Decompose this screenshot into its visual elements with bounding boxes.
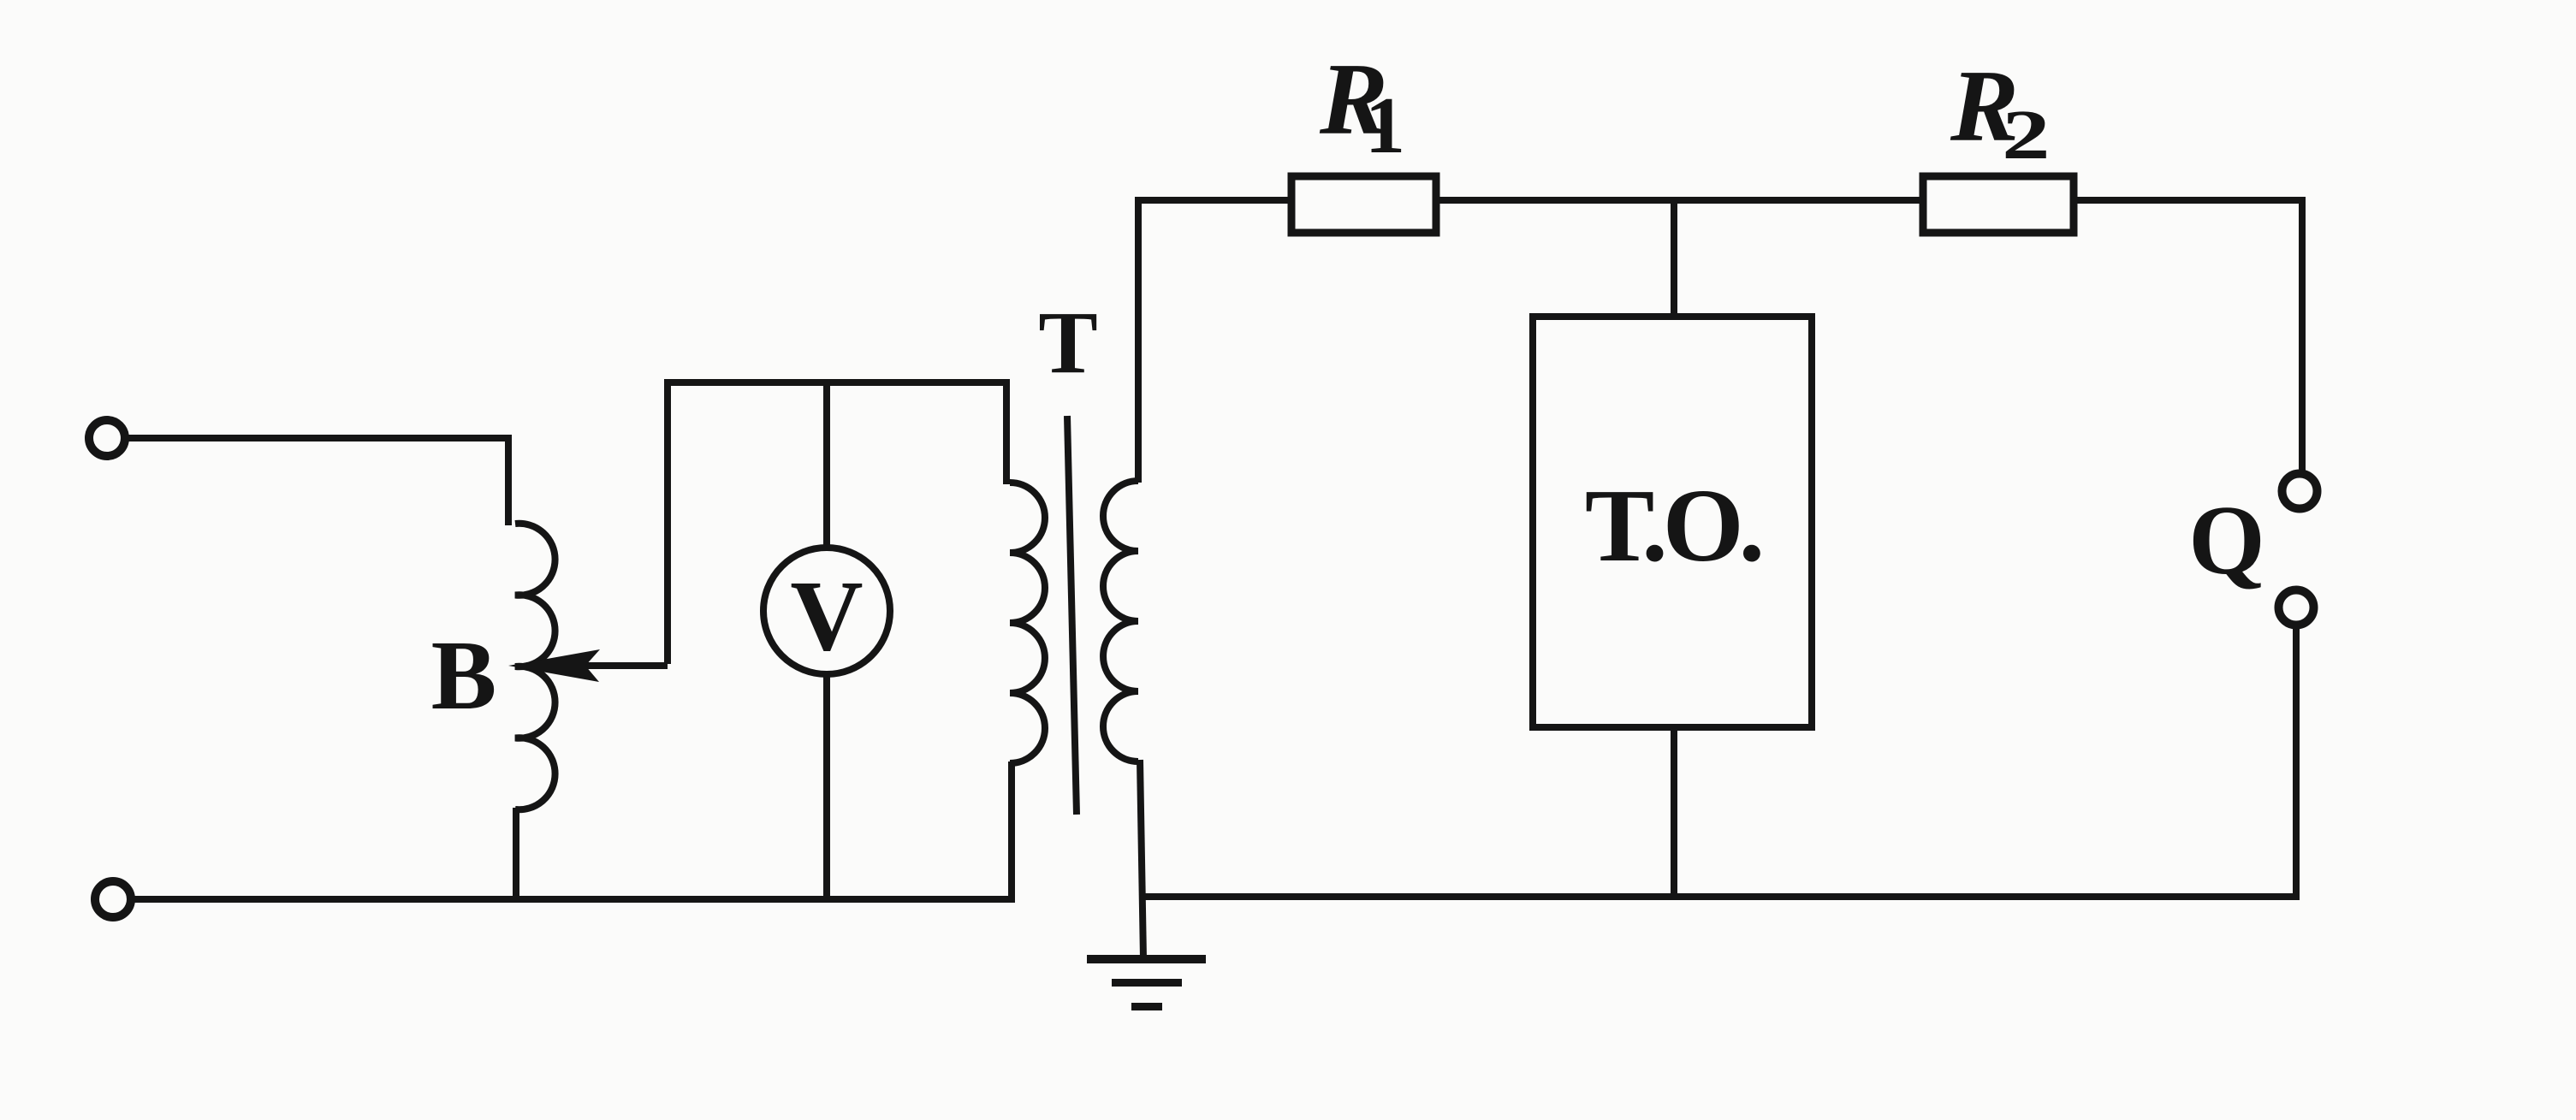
voltmeter V circle (763, 548, 890, 674)
transformer T secondary coil (1103, 481, 1138, 761)
wire switch to bottom net (1143, 625, 2296, 897)
wire R1 to R2 (1436, 197, 1923, 204)
wire primary top to tap bus (668, 382, 1006, 664)
wire top input to B (125, 438, 508, 525)
wire T.O. bottom (1671, 727, 1677, 897)
input terminal bottom-left (95, 881, 131, 917)
wire voltmeter top (823, 382, 830, 549)
svg-text:T.O.: T.O. (1585, 468, 1761, 584)
transformer T primary coil (1010, 483, 1045, 763)
svg-text:T: T (1038, 293, 1097, 392)
resistor R2 body (1923, 176, 2074, 233)
wire R2 to switch (2074, 200, 2302, 473)
wire voltmeter bottom (823, 673, 830, 899)
autotransformer B coil (515, 524, 555, 810)
resistor R1 body (1291, 176, 1436, 233)
switch Q lower contact (2279, 590, 2314, 625)
svg-text:B: B (431, 621, 497, 730)
switch Q upper contact (2282, 474, 2318, 509)
transformer T core (1067, 416, 1077, 815)
wire bottom-left net (131, 761, 1012, 899)
ground (1087, 955, 1206, 1010)
T.O. box (1533, 317, 1812, 727)
wire secondary top to R1 (1138, 200, 1291, 483)
input terminal top-left (89, 420, 125, 456)
svg-text:2: 2 (2002, 97, 2051, 175)
wiper arrow head (508, 649, 600, 682)
wire top node to T.O. (1671, 200, 1677, 317)
svg-text:1: 1 (1365, 81, 1405, 170)
wire B bottom (513, 808, 519, 899)
svg-text:Q: Q (2188, 486, 2264, 595)
wire secondary bottom to ground (1140, 760, 1143, 959)
wire tap arrow shaft (584, 662, 668, 669)
svg-text:V: V (790, 560, 863, 672)
